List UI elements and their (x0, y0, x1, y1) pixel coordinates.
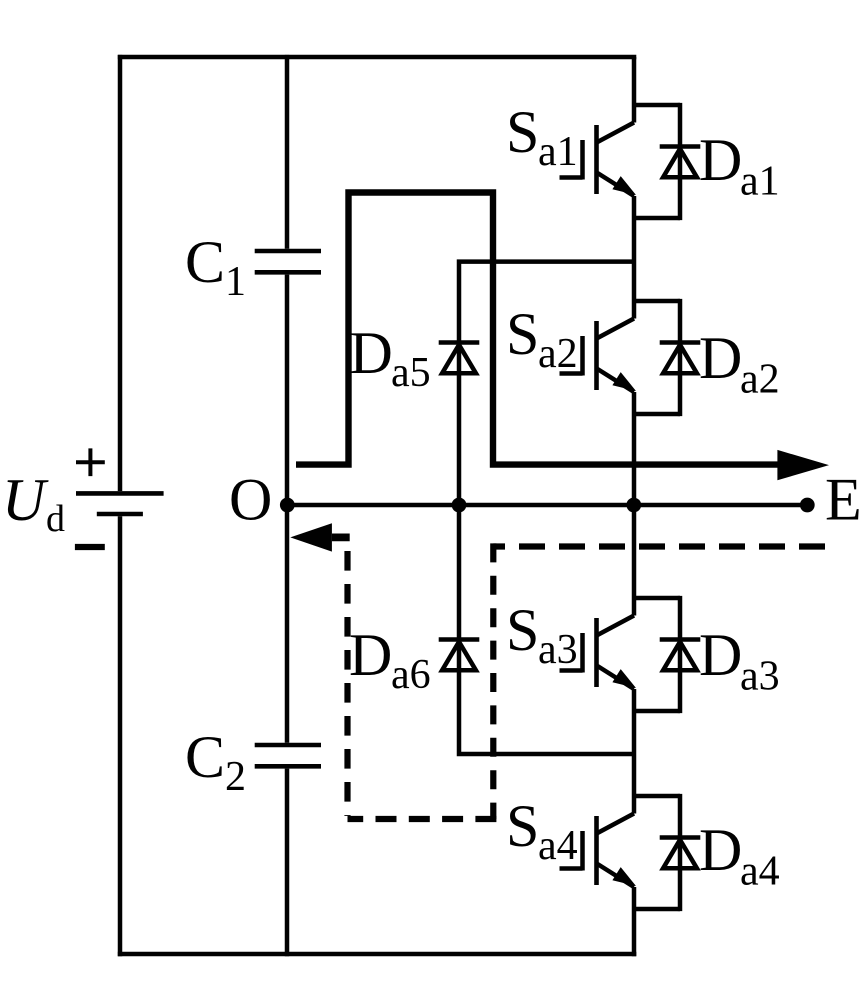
wire top rail (118, 55, 637, 60)
node E (800, 498, 815, 513)
wire Da2 branch (678, 299, 683, 416)
wire O-E neutral output line (287, 503, 808, 508)
label Sa1 (506, 99, 578, 175)
label Sa2 (506, 301, 578, 377)
diode Da3 (660, 640, 701, 671)
wire left rail lower (118, 516, 123, 956)
capacitor C2 (255, 745, 321, 766)
svg-text:a1: a1 (740, 159, 780, 205)
svg-text:a3: a3 (538, 627, 578, 673)
junction clamp chain / output line (452, 498, 467, 513)
wire Da3 branch (678, 596, 683, 713)
svg-text:U: U (2, 467, 49, 533)
wire Sa3 collector stub (634, 596, 680, 601)
arrowhead dashed path (290, 523, 332, 551)
junction switch chain / output line (626, 498, 641, 513)
svg-text:O: O (229, 467, 272, 533)
svg-text:a5: a5 (391, 350, 431, 396)
svg-text:D: D (699, 325, 742, 391)
diode Da4 (660, 838, 701, 869)
label C2 (185, 724, 246, 800)
wire dashed path arrow tail (332, 534, 350, 542)
arrowhead bold path (777, 450, 829, 480)
wire Sa2 emitter stub (634, 412, 680, 417)
capacitor C1 (255, 251, 321, 272)
transistor Sa2 (560, 319, 637, 393)
transistor Sa1 (560, 123, 637, 197)
wire Sa1 emitter stub (634, 216, 680, 221)
label E (825, 467, 862, 533)
wire switch chain Sa3-Sa4 (632, 689, 637, 814)
label Da5 (350, 320, 431, 396)
wire Da1 branch (678, 103, 683, 220)
wire Sa4 collector stub (634, 794, 680, 799)
label Sa3 (506, 597, 578, 673)
wire Sa4 emitter stub (634, 907, 680, 912)
wire Sa1 collector stub (634, 103, 680, 108)
svg-text:a6: a6 (391, 652, 431, 698)
wire capacitor rail upper (285, 55, 290, 249)
label Ud (2, 467, 65, 540)
battery Ud (75, 448, 164, 547)
label O (229, 467, 272, 533)
bold positive current path O to E (296, 193, 778, 465)
svg-text:a3: a3 (740, 654, 780, 700)
label Da3 (699, 622, 780, 700)
label Da2 (699, 325, 780, 403)
svg-text:D: D (699, 127, 742, 193)
dashed negative current path E to O (493, 543, 825, 549)
label Da6 (349, 622, 431, 698)
wire clamp chain Da5/Da6 (459, 262, 634, 754)
wire switch chain above Sa1 (632, 57, 637, 123)
svg-text:a4: a4 (538, 823, 578, 869)
wire capacitor rail lower (285, 769, 290, 957)
diode Da2 (660, 343, 701, 374)
wire capacitor rail middle (285, 275, 290, 743)
label Da4 (699, 817, 780, 895)
node O (280, 498, 295, 513)
wire left rail upper (118, 55, 123, 491)
label Sa4 (506, 793, 578, 869)
diode Da1 (660, 147, 701, 178)
svg-text:S: S (506, 597, 539, 663)
svg-text:D: D (349, 622, 392, 688)
svg-text:S: S (506, 301, 539, 367)
wire Sa3 emitter stub (634, 709, 680, 714)
svg-text:d: d (46, 498, 65, 540)
svg-text:D: D (699, 817, 742, 883)
svg-text:2: 2 (225, 754, 246, 800)
svg-text:a2: a2 (538, 331, 578, 377)
svg-text:S: S (506, 99, 539, 165)
svg-text:E: E (825, 467, 862, 533)
wire switch chain below Sa4 (632, 887, 637, 956)
wire switch chain Sa1-Sa2 (632, 196, 637, 319)
transistor Sa3 (560, 616, 637, 690)
label C1 (185, 229, 246, 305)
wire bottom rail (118, 952, 637, 957)
diode Da5 (439, 343, 480, 374)
transistor Sa4 (560, 814, 637, 888)
svg-text:S: S (506, 793, 539, 859)
svg-text:D: D (699, 622, 742, 688)
svg-text:C: C (185, 229, 225, 295)
wire Sa2 collector stub (634, 299, 680, 304)
svg-text:a4: a4 (740, 849, 780, 895)
diode Da6 (439, 640, 480, 671)
svg-text:a2: a2 (740, 357, 780, 403)
svg-text:D: D (350, 320, 393, 386)
svg-text:a1: a1 (538, 129, 578, 175)
label Da1 (699, 127, 780, 205)
wire Da4 branch (678, 794, 683, 911)
svg-text:C: C (185, 724, 225, 790)
svg-text:1: 1 (225, 259, 246, 305)
wire switch chain Sa2-Sa3 (632, 392, 637, 616)
